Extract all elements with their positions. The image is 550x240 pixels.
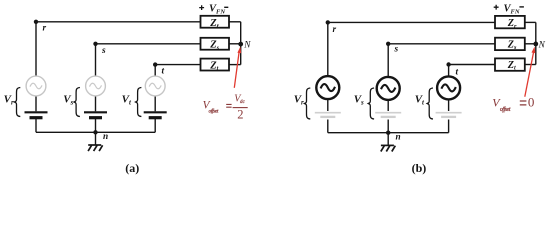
svg-text:offset: offset <box>500 106 511 113</box>
svg-text:t: t <box>456 68 459 78</box>
AC source circle Vr (gray) <box>26 76 46 96</box>
label + VFN - <box>199 5 204 10</box>
wire s horizontal <box>96 43 201 45</box>
ground stem <box>95 132 97 145</box>
bottom bus wire <box>36 131 155 133</box>
svg-text:Vt: Vt <box>415 94 425 107</box>
svg-text:2: 2 <box>237 108 243 122</box>
wire box Zr to bus <box>229 21 241 23</box>
red arrow to node N <box>234 51 239 88</box>
node N dot b <box>533 42 538 47</box>
wire battery s to bus b <box>387 120 389 133</box>
node N dot <box>238 42 243 47</box>
wire battery t to bus <box>154 118 156 133</box>
AC source circle Vs (gray) <box>86 76 106 96</box>
wire circle r to battery <box>35 96 37 111</box>
impedance box Zr <box>201 16 230 28</box>
AC source circle Vt (gray) <box>145 76 165 96</box>
svg-text:t: t <box>162 67 165 77</box>
battery s b (gray) <box>375 112 401 114</box>
svg-text:Vr: Vr <box>294 94 304 107</box>
bottom bus wire b <box>328 132 449 134</box>
wire t vertical b <box>448 65 450 77</box>
formula V_offset = 0 <box>492 94 534 113</box>
svg-text:(b): (b) <box>412 161 427 175</box>
wire battery t to bus b <box>448 120 450 133</box>
impedance box Zs <box>201 38 230 50</box>
svg-text:Vs: Vs <box>354 94 364 107</box>
svg-text:Vr: Vr <box>4 93 14 106</box>
AC source circle Vs b (black) <box>377 77 400 100</box>
node t b <box>446 62 450 66</box>
wire box Zr to bus b <box>525 21 536 23</box>
bus vertical N b <box>535 22 537 64</box>
wire battery r to bus b <box>327 120 329 133</box>
svg-text:VFN: VFN <box>209 4 225 16</box>
formula V_offset = V_dc / 2 <box>203 94 248 122</box>
battery t (black) <box>144 111 167 113</box>
ground stem b <box>387 133 389 146</box>
node ground junction <box>93 130 97 134</box>
node r b <box>326 20 330 24</box>
node r <box>34 20 38 24</box>
impedance box Zt <box>201 59 230 71</box>
node s b <box>386 42 390 46</box>
wire battery s to bus <box>95 118 97 133</box>
wire t horizontal <box>155 64 200 66</box>
battery s (black) <box>84 111 107 113</box>
wire circle t to battery b <box>448 99 450 111</box>
wire s horizontal b <box>388 43 495 45</box>
label + VFN - b <box>494 5 499 10</box>
node s <box>93 42 97 46</box>
wire s vertical b <box>387 44 389 78</box>
wire circle t to battery <box>154 96 156 111</box>
battery r b (gray) <box>315 112 341 114</box>
battery t b (gray) <box>436 112 462 114</box>
wire box Zt to bus b <box>525 64 536 66</box>
svg-text:n: n <box>396 133 401 143</box>
wire box Zs to bus <box>229 43 241 45</box>
wire s vertical <box>95 44 97 77</box>
wire r vertical <box>35 22 37 77</box>
red arrow to node N b <box>525 52 534 97</box>
wire circle s to battery b <box>387 100 389 111</box>
svg-text:N: N <box>243 41 251 51</box>
bus vertical N <box>240 22 242 65</box>
wire r horizontal <box>36 21 201 23</box>
impedance box Zt b <box>495 58 525 70</box>
ground symbol <box>88 145 103 151</box>
wire circle s to battery <box>95 96 97 111</box>
svg-text:r: r <box>43 24 47 34</box>
ground symbol b <box>381 145 396 151</box>
wire circle r to battery b <box>327 99 329 111</box>
svg-text:s: s <box>394 45 399 55</box>
svg-text:offset: offset <box>209 108 219 115</box>
svg-text:Vs: Vs <box>63 93 73 106</box>
impedance box Zs b <box>495 38 525 50</box>
impedance box Zr b <box>495 16 525 28</box>
wire battery r to bus <box>35 118 37 133</box>
svg-text:0: 0 <box>528 94 535 109</box>
svg-text:n: n <box>103 132 108 142</box>
svg-text:Vt: Vt <box>122 93 132 106</box>
AC source circle Vr b (black) <box>316 76 339 99</box>
svg-text:dc: dc <box>240 99 246 105</box>
battery r (black) <box>25 111 48 113</box>
svg-text:(a): (a) <box>125 161 139 175</box>
node t <box>153 62 157 66</box>
wire r horizontal b <box>328 21 495 23</box>
wire r vertical b <box>327 22 329 76</box>
node ground junction b <box>386 131 390 135</box>
wire t vertical <box>154 65 156 77</box>
svg-text:r: r <box>333 25 337 35</box>
wire box Zs to bus b <box>525 43 536 45</box>
AC source circle Vt b (black) <box>437 76 460 99</box>
svg-text:VFN: VFN <box>504 4 520 16</box>
svg-text:s: s <box>101 46 106 56</box>
wire t horizontal b <box>449 64 495 66</box>
wire box Zt to bus <box>229 64 241 66</box>
svg-text:N: N <box>538 40 546 50</box>
